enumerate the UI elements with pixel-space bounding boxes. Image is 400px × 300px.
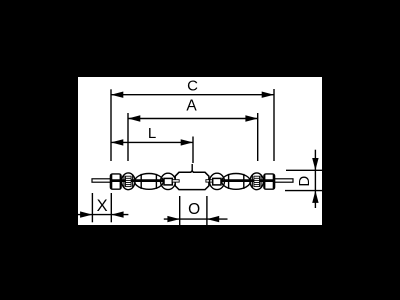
dimension D line: [312, 150, 318, 208]
svg-text:D: D: [296, 176, 313, 187]
extension line L right (center): [192, 137, 194, 164]
center conductor right: [221, 179, 274, 182]
glass tip: [191, 164, 193, 171]
bead 2 outline (right ladder bead): [250, 173, 263, 190]
extension line A right: [257, 113, 259, 161]
extension line left (C/L datum): [110, 89, 112, 161]
link stub left: [172, 180, 179, 182]
svg-text:O: O: [188, 201, 200, 218]
end cap right outline: [264, 174, 275, 189]
extension line D top: [286, 169, 322, 171]
extension line O left: [179, 196, 181, 225]
extension line C right: [273, 89, 275, 161]
dimension A line: [128, 115, 258, 121]
extension line D bottom: [285, 190, 322, 192]
lead wire left: [92, 179, 111, 182]
link stub right: [206, 180, 213, 182]
svg-text:A: A: [186, 98, 197, 115]
dimension L line: [111, 139, 193, 145]
barrel right outline: [222, 174, 251, 190]
link bead left outline: [161, 173, 176, 189]
glass body (center hexagon): [175, 171, 209, 190]
lamp body white fills: [110, 171, 274, 190]
extension line X right: [110, 193, 112, 222]
dimension C line: [111, 92, 274, 98]
extension line O right: [206, 196, 208, 225]
center conductor left: [111, 179, 164, 182]
ladder element right: [254, 176, 260, 186]
white drawing sheet: [78, 77, 322, 225]
extension line A left: [127, 113, 129, 161]
dimension X line: [78, 211, 128, 217]
link plate left: [164, 178, 172, 185]
dimension O line: [164, 216, 228, 222]
link plate right: [213, 178, 221, 185]
svg-text:L: L: [148, 125, 156, 142]
svg-text:C: C: [187, 77, 198, 94]
bead 1 outline (left ladder bead): [122, 173, 135, 190]
barrel left outline: [135, 174, 164, 190]
ladder element left: [126, 176, 132, 186]
link bead right outline: [210, 173, 225, 189]
end cap left outline: [110, 174, 121, 189]
svg-text:X: X: [97, 197, 108, 215]
lead wire right: [274, 179, 293, 182]
extension line X left: [91, 193, 93, 222]
